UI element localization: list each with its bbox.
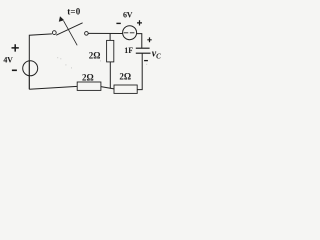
source V2 6V [123,26,137,40]
svg-text:2Ω: 2Ω [89,51,101,61]
capacitor C 1F bottom plate [136,52,151,54]
svg-text:2Ω: 2Ω [82,73,94,83]
wire between bottom resistors [101,87,114,89]
wire capacitor bottom down to bottom-right corner [137,53,142,89]
svg-text:6V: 6V [123,10,133,19]
label - of V2 [116,22,120,24]
label - of capacitor [144,60,148,62]
svg-text:t=0: t=0 [67,6,81,16]
label + of V1 [12,44,19,51]
capacitor C 1F top plate [136,47,150,49]
svg-text:2Ω: 2Ω [119,71,131,81]
source V1 4V [23,61,38,76]
label + of capacitor [147,37,151,42]
wire V2 right to capacitor top [136,34,141,49]
svg-text:1F: 1F [124,46,133,55]
resistor R4 bottom left 2ohm [77,82,101,90]
wire R2 bottom to bottom wire [109,62,111,89]
label - of V1 [12,69,17,71]
switch motion arrow [64,21,78,45]
wire left side: bottom-left corner up to top-left corner then to switch [29,34,52,89]
switch right contact [85,32,89,36]
wire junction drop to R2 [109,33,111,40]
svg-text:4V: 4V [3,55,13,64]
inner dash of V2 [124,32,136,34]
resistor R2 vertical 2ohm [107,40,114,62]
switch left contact [52,31,56,35]
switch blade [56,23,82,35]
resistor R3 bottom right 2ohm [114,85,137,93]
wire top: switch to 6V source with junction [88,32,123,34]
wire through V1 down to bottom wire [28,61,30,89]
scan speckles [57,57,147,68]
wire bottom left [29,86,77,89]
background [0,0,183,101]
label + of V2 [137,20,142,25]
